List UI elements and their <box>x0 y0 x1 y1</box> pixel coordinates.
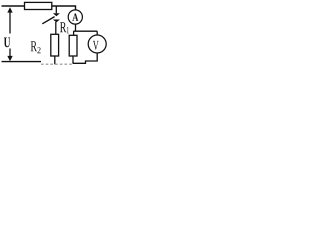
wire wiper to R2 <box>55 22 57 34</box>
wire R1 bottom <box>72 56 74 64</box>
rheostat wiper arrowhead <box>53 13 60 16</box>
voltmeter lead top <box>96 31 98 34</box>
wire ammeter to node <box>75 24 77 31</box>
rheostat wiper stem <box>55 6 57 13</box>
label R1 <box>60 22 66 32</box>
resistor R2 body <box>51 34 59 56</box>
voltmeter V circle <box>88 35 106 53</box>
voltmeter V letter <box>93 41 99 50</box>
voltage arrow U top head <box>7 7 12 12</box>
ammeter A letter <box>72 14 78 21</box>
voltage arrow U top shaft <box>9 13 11 34</box>
arrowhead on R2 branch <box>53 20 60 23</box>
label U <box>4 38 10 48</box>
wire into R1 <box>73 31 75 35</box>
dashed wire <box>41 63 73 65</box>
voltage arrow U bottom shaft <box>9 49 11 57</box>
wire top rail left <box>2 5 25 7</box>
ammeter A circle <box>68 10 82 24</box>
voltage arrow U bottom head <box>7 56 12 61</box>
wire R2 bottom <box>54 56 56 64</box>
wire top rail right <box>52 6 76 10</box>
bottom rail left <box>2 61 42 63</box>
rheostat wiper diagonal arm <box>42 17 54 24</box>
resistor R1 body <box>69 35 77 56</box>
bottom rail right with step to voltmeter <box>73 53 97 63</box>
rheostat body <box>25 2 52 9</box>
wire node to voltmeter <box>73 30 97 32</box>
label R2 <box>31 41 37 51</box>
